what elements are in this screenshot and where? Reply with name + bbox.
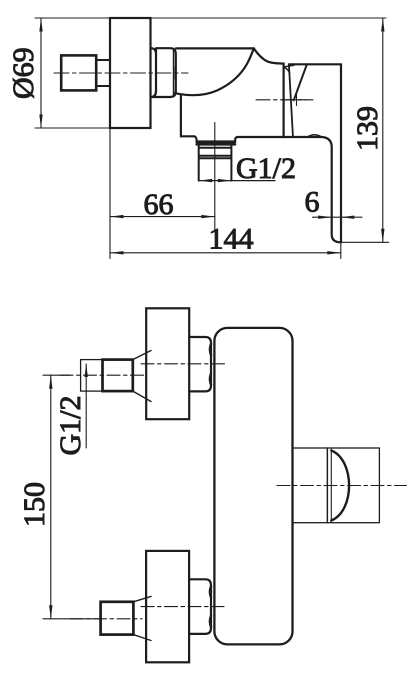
svg-text:139: 139 [351, 106, 384, 151]
dimension 139 [340, 18, 389, 242]
wall bracket flange edge [289, 65, 293, 136]
wall line (bracket right edge) [340, 64, 342, 242]
outlet dome arc [331, 451, 349, 521]
handle knob [61, 55, 96, 90]
top inlet escutcheon [146, 308, 189, 419]
wall bracket top edge [289, 63, 341, 65]
outlet centerline [277, 485, 407, 487]
cone center tick [296, 95, 298, 106]
svg-text:150: 150 [18, 482, 51, 527]
dimension 66 [110, 128, 215, 259]
top inlet pipe [81, 360, 103, 392]
dimension 144 [110, 242, 341, 258]
body front (rounded rect) [214, 328, 292, 645]
centerline knob axis [54, 72, 188, 74]
hex nut (side) [151, 48, 176, 97]
bottom inlet hex nut [189, 579, 211, 634]
outlet flange fillet right [235, 137, 237, 142]
dimension 6 [313, 216, 363, 219]
G1/2 arrows [199, 179, 213, 182]
bottom inlet hex nut facet cusps [210, 586, 211, 627]
bottom inlet taper [133, 596, 151, 640]
wall bracket cone face [294, 64, 307, 100]
svg-text:6: 6 [305, 186, 320, 219]
bracket bottom lens bump [308, 135, 322, 137]
svg-text:144: 144 [209, 223, 254, 256]
G1/2 leader arrow [85, 364, 88, 448]
outlet cap rect [327, 448, 379, 523]
wall bracket lip curve [284, 67, 290, 72]
bottom inlet escutcheon [146, 551, 189, 662]
outlet nut bottom / G1/2 dim line [199, 180, 275, 182]
extension line bottom of Ø69 [35, 127, 110, 129]
bottom pipe centerline [70, 618, 142, 620]
svg-text:66: 66 [144, 188, 174, 221]
outlet axis solid segment through cone [282, 99, 306, 101]
outlet flange band [197, 142, 235, 145]
top inlet hex nut [189, 337, 211, 391]
svg-text:Ø69: Ø69 [7, 47, 40, 99]
dimension Ø69 line [39, 18, 42, 128]
top valve centerline [141, 363, 225, 365]
outlet nut body [199, 144, 232, 180]
spout sweep curve [175, 48, 254, 95]
outlet flange fillet left [194, 136, 196, 141]
outlet stub [292, 448, 327, 523]
top pipe centerline [60, 374, 144, 376]
outlet axis centerline (to wall) [256, 99, 313, 101]
knob stem [96, 60, 109, 86]
wall bracket lip top tick [285, 65, 294, 66]
outlet centerline vertical [214, 123, 216, 231]
hex nut inner edge [173, 49, 175, 96]
escutcheon (side) [110, 18, 151, 128]
svg-text:G1/2: G1/2 [54, 396, 87, 456]
top inlet taper [133, 351, 151, 402]
bottom inlet union nut [101, 602, 134, 635]
outlet cap inner tick [330, 449, 332, 522]
extension line top (y=18, across) [35, 17, 386, 19]
body (side view outline) [176, 48, 284, 137]
center tick on nut [174, 68, 176, 80]
bracket bottom and hook [284, 137, 341, 242]
top inlet hex nut facet cusps [210, 344, 211, 385]
top inlet union nut [103, 360, 133, 392]
dimension 150 [43, 375, 100, 619]
bottom valve centerline [141, 606, 224, 608]
svg-text:G1/2: G1/2 [236, 152, 296, 185]
